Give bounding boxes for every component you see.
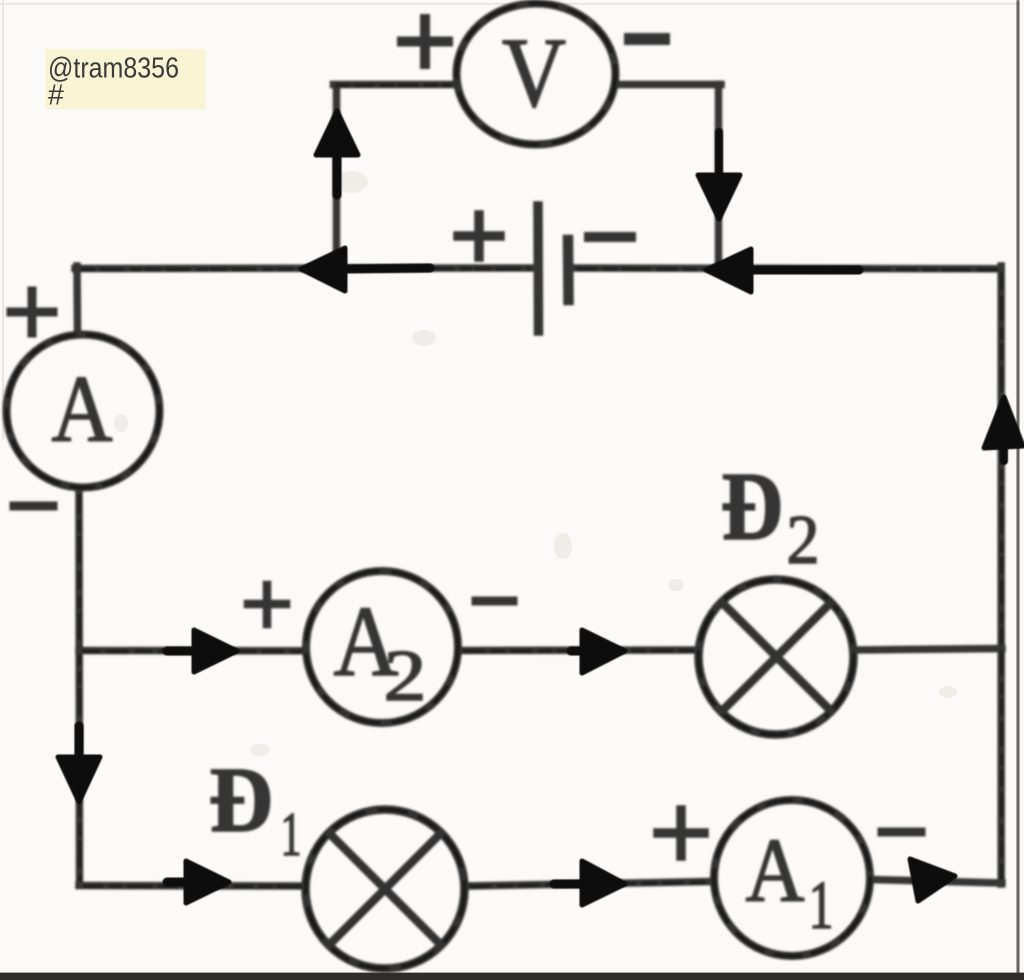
- lamp D1: circle: [306, 810, 465, 969]
- wire: voltmeter branch top-right horizontal from V(-): [618, 81, 721, 89]
- svg-text:Đ: Đ: [721, 453, 783, 560]
- wire: middle branch from lamp D2 to right rail: [855, 649, 1002, 651]
- current arrow: down, left rail above bottom branch: [58, 757, 100, 802]
- polarity - of battery: [589, 232, 631, 242]
- scan artifact: dark right page edge line: [1017, 0, 1020, 980]
- voltmeter U=V: circle: [457, 4, 616, 145]
- svg-text:2: 2: [384, 635, 427, 716]
- scan artifact: dark bottom bar: [0, 973, 1024, 980]
- polarity - of ammeter A: [14, 502, 53, 511]
- watermark sticker: [45, 49, 206, 112]
- wire: voltmeter branch top-left horizontal to V(+): [334, 81, 455, 89]
- wire: main horizontal bus right of battery, battery(-) to right rail: [573, 264, 1001, 272]
- polarity + of voltmeter V: [402, 19, 448, 64]
- current arrow: right, middle branch before lamp D2: [582, 630, 625, 673]
- lamp D1: X cross: [329, 833, 441, 945]
- scan artifact: faint left edge line: [2, 0, 4, 440]
- wire: middle branch from left rail to ammeter A2(+): [79, 647, 305, 655]
- svg-text:Đ: Đ: [209, 749, 273, 852]
- letters: [52, 17, 834, 943]
- svg-text:A: A: [746, 820, 805, 921]
- current arrow: up, voltmeter left riser: [316, 111, 358, 155]
- polarity + of ammeter A1: [658, 810, 704, 856]
- svg-text:2: 2: [787, 502, 820, 579]
- polarity - of ammeter A2: [476, 597, 513, 606]
- current arrow: left, main bus toward battery +: [301, 248, 345, 291]
- scan artifact: faint top edge line: [0, 3, 1018, 5]
- current arrow: left, main bus right of battery: [706, 249, 751, 292]
- ammeter A2: circle: [306, 571, 458, 723]
- wire: left rail from ammeter A(-) down to bottom branch corner: [75, 490, 83, 885]
- current arrow: up, right rail: [984, 397, 1023, 448]
- battery: positive plate (long bar): [533, 206, 543, 331]
- current arrow: right, bottom branch before lamp D1: [186, 861, 229, 903]
- svg-text:1: 1: [809, 867, 834, 943]
- scan artifact: faint smudges: [114, 171, 957, 756]
- wire: bottom branch from lamp D1 to ammeter A1(+): [466, 882, 712, 887]
- svg-text:A: A: [52, 356, 113, 462]
- wire: right rail vertical: [997, 266, 1005, 884]
- wire: middle branch from A2(-) to lamp D2: [459, 646, 697, 654]
- polarity + of ammeter A2: [248, 585, 286, 624]
- polarity + of battery: [458, 215, 500, 257]
- wire: main horizontal bus left of battery, node from A(+) to battery(+): [75, 264, 533, 272]
- polarity - of voltmeter V: [630, 33, 664, 45]
- svg-text:#: #: [48, 80, 64, 112]
- current direction arrows (solid black): [58, 111, 1023, 905]
- lamp D2: X cross: [723, 604, 830, 711]
- svg-text:V: V: [502, 17, 566, 128]
- lamp D2: circle: [699, 580, 854, 735]
- wire: voltmeter branch right vertical drop: [715, 85, 723, 267]
- svg-text:1: 1: [281, 801, 302, 869]
- wire: bottom branch from A1(-) to bottom-right corner: [872, 880, 1002, 884]
- current arrow: right, middle branch before A2: [194, 630, 237, 672]
- wire: drop from main bus to ammeter A top (+ terminal): [73, 266, 81, 330]
- ammeter A: circle: [7, 335, 160, 488]
- battery: negative plate (short bar): [563, 240, 574, 300]
- current arrow: down, voltmeter right drop: [698, 175, 740, 219]
- current arrow: right, bottom branch before A1: [582, 861, 625, 905]
- polarity + of ammeter A: [11, 291, 53, 333]
- svg-text:@tram8356: @tram8356: [48, 53, 179, 85]
- polarity - of ammeter A1: [882, 828, 921, 837]
- current arrow: right, bottom branch after A1: [910, 859, 955, 901]
- wire: bottom branch from left corner to lamp D1: [79, 882, 305, 890]
- ammeter A1: circle: [714, 800, 870, 956]
- wire: voltmeter branch left vertical riser: [333, 86, 341, 266]
